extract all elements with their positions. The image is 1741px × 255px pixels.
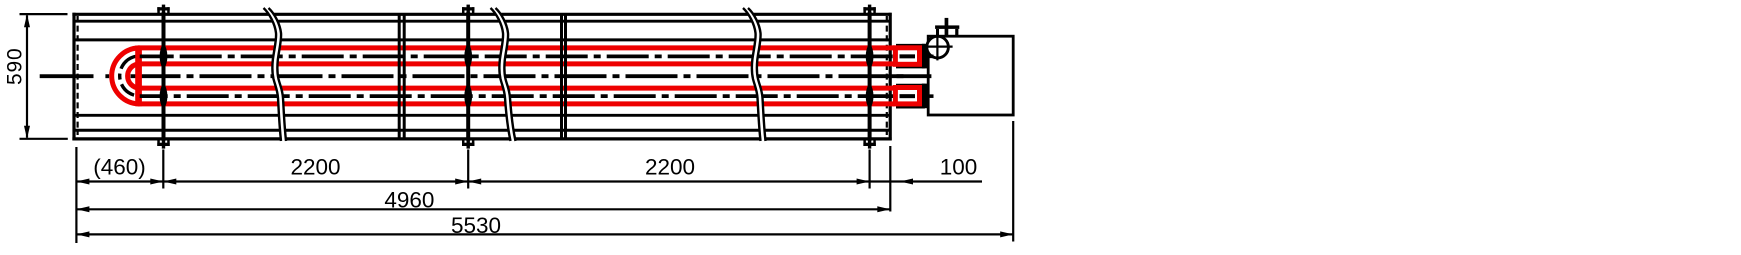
heater tube bend joint red bar: [135, 46, 142, 107]
bottom leg centerline (dash-dot): [140, 94, 895, 98]
break line 1 right stroke: [269, 8, 287, 141]
support bracket 1: [157, 5, 169, 149]
dimension 590 extension top: [20, 13, 68, 15]
panel joint line 1a: [398, 13, 401, 140]
break line 2 white channel: [493, 8, 513, 141]
arrows at 163: [163, 179, 176, 185]
extension line at support 3: [868, 150, 870, 189]
terminal housing top (black): [896, 45, 924, 67]
duct inner line top A: [74, 20, 890, 23]
gland nut right side: [955, 29, 958, 36]
top leg centerline tick at terminal: [923, 55, 934, 59]
svg-text:590: 590: [4, 48, 27, 85]
duct left edge: [72, 13, 75, 141]
svg-text:5530: 5530: [451, 213, 501, 238]
extension line at junction box right: [1012, 121, 1014, 242]
dimension 590 arrow down: [24, 126, 30, 139]
dimension 590 arrow up: [24, 14, 30, 27]
arrows at 468: [468, 179, 481, 185]
terminal pin top (black dash): [900, 54, 916, 58]
heater terminal ring bottom (red): [895, 88, 919, 104]
heater tube bottom leg bottom wall: [138, 101, 895, 106]
main centerline axis (dash-dot): [187, 74, 906, 78]
dimension 590 line: [26, 15, 28, 137]
terminal housing bottom (black): [896, 85, 924, 107]
heater tube U-bend centerline arc (dash-dot): [120, 56, 140, 96]
main centerline axis dash c: [131, 74, 181, 78]
gland crosshair vertical: [936, 35, 938, 60]
duct bottom edge: [72, 137, 891, 140]
heater tube U-bend outer arc: [112, 48, 140, 104]
dimension chain line (460/2200/2200/100): [76, 180, 982, 182]
extension line at support 1: [162, 150, 164, 189]
heater tube bottom leg top wall: [138, 86, 895, 91]
cable gland circle: [927, 36, 949, 58]
gland crosshair horizontal: [926, 45, 952, 47]
extension line at support 2: [467, 150, 469, 189]
duct top edge: [72, 13, 891, 16]
duct inner line top B: [74, 38, 890, 41]
break line 2 left stroke: [491, 8, 511, 141]
heater terminal ring top (red): [895, 48, 919, 65]
break line 1 white channel: [266, 8, 284, 141]
gland flange bar: [935, 25, 959, 29]
break line 3 right stroke: [748, 8, 766, 141]
arrow at 900 pointing left: [900, 179, 913, 185]
heater tube U-bend inner arc: [128, 64, 140, 88]
main centerline axis dot b: [105, 74, 109, 78]
svg-text:100: 100: [940, 154, 978, 179]
svg-text:2200: 2200: [645, 154, 695, 179]
heater tube top leg bottom wall: [138, 61, 895, 66]
svg-text:2200: 2200: [290, 154, 340, 179]
terminal end plate top (black bar): [922, 44, 928, 69]
main centerline axis left dash: [40, 74, 94, 78]
main centerline end segment: [889, 74, 931, 78]
duct inner line bottom B: [74, 114, 890, 117]
duct inner line bottom A: [74, 129, 890, 132]
panel joint line 1b: [403, 13, 406, 140]
arrow 5530 right: [1000, 231, 1013, 237]
gland nut left side: [936, 29, 939, 36]
arrow at 869: [857, 179, 870, 185]
break line 3 left stroke: [743, 8, 761, 141]
dimension 5530 line: [76, 233, 1013, 235]
terminal pin bottom (black dash): [900, 94, 916, 98]
dimension 590 extension bottom: [20, 138, 68, 140]
gland stud: [945, 18, 949, 37]
svg-text:4960: 4960: [384, 188, 434, 213]
break line 2 right stroke: [496, 8, 516, 141]
panel joint line 2a: [560, 13, 563, 140]
arrow 5530 left: [76, 231, 89, 237]
top leg centerline (dash-dot): [140, 54, 895, 58]
extension line at duct left: [75, 147, 77, 243]
support bracket 2: [462, 5, 474, 149]
duct right edge: [889, 13, 892, 141]
extension line at duct right end: [889, 146, 891, 212]
svg-text:(460): (460): [93, 154, 146, 179]
arrow 4960 left: [76, 206, 89, 212]
bottom leg centerline tick at terminal: [923, 94, 934, 98]
break line 3 white channel: [746, 8, 764, 141]
break line 1 left stroke: [264, 8, 282, 141]
junction box: [928, 36, 1013, 115]
arrow 4960 right: [877, 206, 890, 212]
panel joint line 2b: [564, 13, 567, 140]
support bracket 3: [863, 5, 875, 149]
duct right hidden edge (dashed): [886, 16, 888, 135]
duct left hidden edge (dashed): [76, 16, 78, 135]
dimension 4960 line: [76, 208, 890, 210]
heater tube top leg top wall: [138, 45, 895, 50]
terminal end plate bottom (black bar): [922, 84, 928, 109]
arrow left at 76: [76, 179, 89, 185]
